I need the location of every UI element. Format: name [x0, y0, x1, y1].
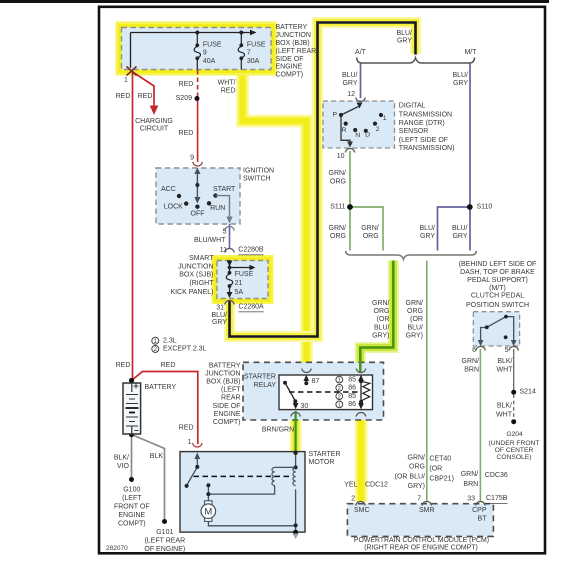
svg-text:GRY): GRY) [406, 332, 423, 339]
svg-text:ORG: ORG [363, 233, 379, 240]
starter motor internals [187, 453, 296, 532]
svg-text:5: 5 [223, 229, 227, 236]
ground arrow below starter motor [293, 534, 299, 540]
svg-text:BLK/: BLK/ [497, 358, 512, 365]
svg-text:86: 86 [348, 385, 356, 392]
svg-text:GRN/: GRN/ [462, 358, 480, 365]
svg-text:WHT: WHT [497, 367, 514, 374]
svg-text:BOX (SJB): BOX (SJB) [179, 272, 213, 279]
svg-text:ORG: ORG [330, 179, 346, 186]
svg-text:ORG: ORG [374, 308, 390, 315]
svg-text:11: 11 [220, 247, 227, 254]
svg-text:KICK PANEL): KICK PANEL) [170, 289, 213, 296]
top border strip [0, 0, 549, 3]
BJB bus wire [131, 32, 252, 34]
connector pin 5 below clutch switch [509, 347, 519, 351]
svg-text:GRY: GRY [212, 319, 227, 326]
relay pin 87 [305, 377, 307, 383]
svg-text:1: 1 [338, 378, 341, 384]
svg-text:STARTER: STARTER [244, 374, 276, 381]
svg-text:GRN/: GRN/ [372, 300, 390, 307]
battery symbol [123, 383, 141, 434]
relay coil with resistor [360, 377, 362, 408]
connector pin 9 at ignition switch [193, 162, 203, 166]
svg-text:(LEFT REAR: (LEFT REAR [144, 537, 185, 544]
connector arcs at relay box edges [302, 369, 312, 373]
svg-text:30A: 30A [247, 58, 260, 65]
ground G204 terminal [511, 419, 516, 424]
svg-text:REAR: REAR [221, 395, 240, 402]
svg-text:BLU/: BLU/ [419, 225, 435, 232]
svg-text:BLU/: BLU/ [452, 225, 468, 232]
wire WHT/RED highlighted path (fuse7 to relay 87) [243, 72, 307, 371]
svg-text:OF CENTER: OF CENTER [495, 447, 534, 454]
svg-text:1: 1 [338, 403, 341, 409]
connector pin 12 at DTR [356, 98, 366, 102]
wire BRN/GRN highlighted (relay 30 to starter motor), yellow glow [290, 411, 302, 452]
svg-text:1: 1 [124, 77, 128, 84]
svg-text:BLU/: BLU/ [342, 72, 358, 79]
svg-text:(LEFT: (LEFT [122, 495, 142, 502]
wire GRN/ORG highlighted core (brace to relay coil) [360, 261, 393, 374]
svg-text:OFF: OFF [191, 210, 205, 217]
brace (bottom, gathers 4 wires) [346, 251, 477, 259]
svg-text:GRN/: GRN/ [329, 170, 347, 177]
svg-text:(RIGHT REAR OF ENGINE COMPT): (RIGHT REAR OF ENGINE COMPT) [364, 545, 478, 552]
svg-text:DASH, TOP OF BRAKE: DASH, TOP OF BRAKE [460, 269, 535, 276]
svg-text:A/T: A/T [355, 49, 367, 56]
svg-text:SMART: SMART [189, 255, 214, 262]
svg-text:ORG: ORG [409, 464, 425, 471]
svg-text:POWERTRAIN CONTROL MODULE (PCM: POWERTRAIN CONTROL MODULE (PCM) [354, 537, 489, 544]
connector C2280A [225, 301, 235, 305]
arrow charging circuit [150, 106, 159, 116]
DTR sensor dashed box [323, 101, 395, 148]
clutch pedal position switch dashed box [473, 312, 519, 346]
connector C2280B [225, 249, 235, 253]
svg-text:GRY): GRY) [372, 332, 389, 339]
svg-text:87: 87 [312, 378, 320, 385]
svg-text:COMPT): COMPT) [118, 520, 146, 527]
svg-text:282070: 282070 [106, 545, 128, 552]
legend circled 1 [152, 337, 159, 344]
svg-text:TRANSMISSION: TRANSMISSION [399, 111, 452, 118]
relay circled pin variants [336, 376, 343, 408]
svg-text:CDC12: CDC12 [365, 482, 388, 489]
svg-text:GRY: GRY [420, 233, 435, 240]
ignition switch box [156, 168, 240, 224]
svg-text:BATTERY: BATTERY [276, 24, 308, 31]
svg-text:SMR: SMR [419, 507, 435, 514]
svg-text:(LEFT SIDE OF: (LEFT SIDE OF [399, 137, 448, 144]
battery junction box (bottom, starter relay) dashed box [243, 362, 384, 420]
powertrain control module PCM dashed box [347, 504, 493, 537]
wire GRN/ORG DTR 10 to S111 [349, 151, 351, 205]
svg-text:M: M [204, 507, 212, 518]
svg-text:9: 9 [203, 50, 207, 57]
svg-text:SMC: SMC [354, 507, 370, 514]
wire BRN/GRN highlighted core [295, 411, 297, 451]
svg-text:WHT/: WHT/ [218, 80, 236, 87]
DTR sensor internals [357, 103, 363, 109]
svg-text:BRN: BRN [463, 481, 478, 488]
clutch switch internals [481, 317, 514, 343]
fuse 9 40A [194, 33, 200, 70]
ground G101 terminal [162, 519, 167, 524]
svg-text:M/T: M/T [464, 49, 477, 56]
svg-text:9: 9 [190, 155, 194, 162]
svg-text:FRONT OF: FRONT OF [114, 504, 150, 511]
svg-text:RANGE (DTR): RANGE (DTR) [399, 120, 445, 127]
svg-text:POSITION SWITCH: POSITION SWITCH [466, 302, 529, 309]
svg-text:GRY: GRY [342, 80, 357, 87]
svg-text:ENGINE: ENGINE [276, 64, 303, 71]
ignition switch internals [196, 170, 198, 199]
svg-text:G204: G204 [506, 431, 523, 438]
svg-text:G100: G100 [123, 487, 140, 494]
relay switch arm [283, 381, 287, 385]
outer page frame [99, 7, 545, 554]
svg-text:IGNITION: IGNITION [243, 167, 274, 174]
svg-text:S209: S209 [176, 95, 192, 102]
svg-text:BLU/: BLU/ [211, 312, 227, 319]
svg-text:S111: S111 [330, 204, 345, 211]
svg-text:GRN/: GRN/ [361, 225, 379, 232]
svg-text:RED: RED [179, 425, 194, 432]
connector pin 6 below clutch switch [476, 347, 486, 351]
svg-text:FUSE: FUSE [235, 271, 254, 278]
connector pin 1 at starter motor (red) [193, 443, 203, 447]
svg-text:85: 85 [348, 376, 356, 383]
junction battery bottom [129, 432, 134, 437]
svg-text:10: 10 [337, 153, 345, 160]
svg-text:CLUTCH PEDAL: CLUTCH PEDAL [471, 293, 524, 300]
splice S209 [195, 96, 200, 101]
svg-text:2: 2 [338, 394, 341, 400]
svg-text:33: 33 [467, 496, 475, 503]
svg-text:RED: RED [221, 87, 236, 94]
svg-text:C2280B: C2280B [238, 247, 264, 254]
relay dashed actuating line [289, 391, 359, 393]
svg-text:31: 31 [216, 305, 224, 312]
svg-text:PEDAL SUPPORT): PEDAL SUPPORT) [467, 277, 528, 284]
svg-text:BLK/: BLK/ [114, 455, 129, 462]
svg-text:SENSOR: SENSOR [399, 128, 429, 135]
svg-text:2.3L: 2.3L [163, 338, 177, 345]
svg-text:R: R [342, 127, 347, 134]
svg-text:OF ENGINE): OF ENGINE) [144, 546, 185, 553]
wire RED (S209 to ignition pin 9) [197, 98, 199, 162]
wire RED charging circuit branch [132, 72, 154, 108]
wire RED battery to starter motor pin 1 [132, 372, 198, 445]
svg-text:7: 7 [417, 496, 421, 503]
starter solenoid coil right [293, 467, 296, 485]
svg-text:S110: S110 [477, 204, 493, 211]
svg-text:YEL: YEL [344, 482, 357, 489]
svg-text:5: 5 [505, 347, 509, 354]
svg-text:CDC36: CDC36 [485, 472, 508, 479]
svg-text:CET40: CET40 [429, 456, 451, 463]
starter motor solid box [180, 452, 305, 532]
connector pin 5 below ignition [225, 227, 235, 231]
svg-text:COMPT): COMPT) [213, 419, 241, 426]
svg-text:(RIGHT: (RIGHT [189, 280, 214, 287]
svg-text:JUNCTION: JUNCTION [178, 263, 213, 270]
svg-text:(OR: (OR [377, 316, 390, 323]
svg-text:JUNCTION: JUNCTION [276, 32, 311, 39]
splice S111 [347, 204, 353, 210]
svg-text:START: START [213, 186, 236, 193]
svg-text:BATTERY: BATTERY [145, 384, 177, 391]
smart junction box SJB yellow highlight [217, 261, 268, 299]
svg-text:VIO: VIO [117, 463, 130, 470]
wire BLK battery to G101 [132, 435, 165, 521]
svg-text:MOTOR: MOTOR [309, 459, 335, 466]
svg-text:(BEHIND LEFT SIDE OF: (BEHIND LEFT SIDE OF [459, 261, 537, 268]
splice S110 [467, 204, 473, 210]
svg-text:SWITCH: SWITCH [243, 176, 271, 183]
smart junction box SJB dashed box [217, 261, 268, 299]
wire BLK/WHT clutch 5 to S214 [513, 349, 515, 391]
svg-text:BLU/: BLU/ [407, 324, 423, 331]
wire BLK/WHT dashed S214 to G204 [513, 395, 515, 420]
wire RED dashed (fuse9 to S209) [197, 70, 199, 97]
svg-text:G101: G101 [156, 529, 173, 536]
connector arcs at PCM pins [356, 502, 366, 506]
svg-text:1: 1 [188, 439, 192, 446]
junction battery top [129, 378, 134, 383]
wire GRN/ORG S111 right branch [350, 207, 383, 251]
svg-text:BATTERY: BATTERY [209, 362, 241, 369]
svg-text:RED: RED [138, 93, 153, 100]
wire GRN/ORG highlighted path (brace to relay coil 85), lime glow [360, 261, 393, 374]
svg-text:FUSE: FUSE [247, 42, 266, 49]
legend circled 2 [152, 345, 159, 352]
svg-text:CPP: CPP [472, 507, 487, 514]
fuse 7 30A [238, 33, 244, 70]
svg-text:(OR: (OR [410, 316, 423, 323]
svg-text:BLK/: BLK/ [497, 402, 512, 409]
wire GRN/BRN clutch 6 to PCM pin 33 [479, 349, 481, 501]
svg-text:85: 85 [348, 393, 356, 400]
svg-text:ORG: ORG [330, 233, 346, 240]
svg-text:CHARGING: CHARGING [135, 118, 173, 125]
svg-text:GRY: GRY [453, 80, 468, 87]
svg-text:1: 1 [383, 115, 387, 122]
wire BLU/GRY M/T branch (brace to S110) [469, 64, 471, 206]
svg-text:COMPT): COMPT) [276, 72, 304, 79]
svg-text:BLU/: BLU/ [452, 72, 468, 79]
connector pin 10 below DTR [345, 149, 355, 153]
svg-text:6: 6 [472, 347, 476, 354]
svg-text:RED: RED [116, 93, 131, 100]
wire BLU/WHT ignition 5 to C2280B [229, 224, 231, 248]
svg-text:GRN/: GRN/ [406, 300, 424, 307]
svg-text:WHT: WHT [496, 411, 513, 418]
svg-text:7: 7 [247, 50, 251, 57]
svg-text:40A: 40A [203, 58, 216, 65]
svg-text:SIDE OF: SIDE OF [212, 403, 240, 410]
wire YEL highlighted (relay coil 86 to PCM pin 2) [355, 411, 368, 502]
svg-text:GRN/: GRN/ [461, 471, 479, 478]
svg-text:BOX (BJB): BOX (BJB) [276, 40, 310, 47]
svg-text:21: 21 [235, 280, 243, 287]
wire BLU/GRY S110 down branch [469, 207, 471, 251]
brace A/T M/T (top) [357, 58, 475, 64]
svg-text:STARTER: STARTER [309, 451, 341, 458]
svg-text:P: P [332, 111, 337, 118]
svg-text:SIDE OF: SIDE OF [276, 56, 304, 63]
svg-text:JUNCTION: JUNCTION [205, 370, 240, 377]
svg-text:GRN/: GRN/ [408, 455, 426, 462]
svg-text:(OR BLU/: (OR BLU/ [395, 474, 425, 481]
svg-text:2: 2 [351, 496, 355, 503]
svg-text:GRY: GRY [397, 38, 412, 45]
svg-text:(LEFT REAR: (LEFT REAR [276, 48, 317, 55]
wire BLU/GRY S110 left branch [438, 207, 471, 251]
svg-text:30: 30 [301, 403, 309, 410]
svg-text:(UNDER FRONT: (UNDER FRONT [489, 440, 540, 447]
svg-text:GRY: GRY [452, 233, 467, 240]
svg-text:RUN: RUN [210, 205, 225, 212]
svg-text:BLU/: BLU/ [396, 30, 412, 37]
svg-text:FUSE: FUSE [203, 42, 222, 49]
svg-text:BLU/: BLU/ [374, 324, 390, 331]
wire GRN/ORG (OR BLU/GRY) brace to PCM pin 7 [426, 261, 428, 502]
wire BLK/VIO battery to G100 [131, 435, 133, 479]
svg-text:2: 2 [376, 126, 380, 133]
svg-text:BOX (BJB): BOX (BJB) [206, 379, 240, 386]
svg-text:C2280A: C2280A [238, 304, 264, 311]
svg-text:BRN/GRN: BRN/GRN [262, 427, 294, 434]
svg-text:BLU/WHT: BLU/WHT [194, 237, 226, 244]
svg-text:(LEFT: (LEFT [221, 387, 241, 394]
svg-text:(M/T): (M/T) [489, 285, 506, 292]
wire GRN/ORG S111 down branch [349, 207, 351, 251]
ignition START output wire [216, 196, 230, 219]
starter relay solid box [279, 375, 373, 410]
svg-text:D: D [365, 131, 370, 138]
svg-text:BRN: BRN [464, 367, 479, 374]
ground G100 terminal [129, 477, 134, 482]
svg-text:RED: RED [179, 130, 194, 137]
svg-text:LOCK: LOCK [164, 204, 183, 211]
connector X at BJB pin 1 [127, 67, 137, 76]
svg-text:EXCEPT 2.3L: EXCEPT 2.3L [163, 346, 207, 353]
motor M symbol [205, 501, 212, 505]
svg-text:DIGITAL: DIGITAL [399, 103, 426, 110]
wire BLU/GRY highlighted core (SJB 31 to brace) [230, 23, 416, 337]
svg-text:2: 2 [338, 386, 341, 392]
svg-text:ENGINE: ENGINE [118, 512, 145, 519]
SJB internals: entry arrow, bus arrow, fuse 21 [229, 260, 231, 268]
svg-text:CONSOLE): CONSOLE) [497, 454, 532, 461]
svg-text:RED: RED [179, 81, 194, 88]
wire BLU/GRY highlighted path (SJB 31 to brace), yellow glow [230, 23, 416, 337]
splice S214 [511, 390, 516, 395]
svg-text:C175B: C175B [486, 495, 508, 502]
svg-text:ORG: ORG [407, 308, 423, 315]
svg-text:GRY): GRY) [408, 483, 425, 490]
svg-text:RED: RED [161, 362, 176, 369]
svg-text:GRN/: GRN/ [329, 225, 347, 232]
svg-text:RELAY: RELAY [254, 382, 277, 389]
svg-text:RED: RED [116, 362, 131, 369]
wire BLU/GRY A/T branch (brace to DTR 12) [360, 64, 362, 99]
svg-text:(OR: (OR [429, 466, 442, 473]
wire RED battery feed (BJB pin1 to battery) [132, 72, 134, 380]
svg-text:CIRCUIT: CIRCUIT [140, 126, 169, 133]
starter solenoid coil left [272, 467, 275, 485]
svg-text:TRANSMISSION): TRANSMISSION) [399, 145, 455, 152]
svg-text:BT: BT [478, 516, 488, 523]
svg-text:86: 86 [348, 401, 356, 408]
svg-text:12: 12 [347, 91, 355, 98]
svg-text:CBP21): CBP21) [429, 476, 454, 483]
battery junction box BJB yellow highlight [122, 28, 272, 70]
svg-text:N: N [355, 132, 360, 139]
svg-text:S214: S214 [520, 389, 536, 396]
relay pin 30 [295, 401, 297, 404]
svg-text:5A: 5A [235, 289, 244, 296]
svg-text:ENGINE: ENGINE [214, 411, 241, 418]
battery junction box (top) dashed box [122, 28, 272, 70]
svg-text:ACC: ACC [161, 186, 176, 193]
svg-text:BLK: BLK [150, 453, 164, 460]
